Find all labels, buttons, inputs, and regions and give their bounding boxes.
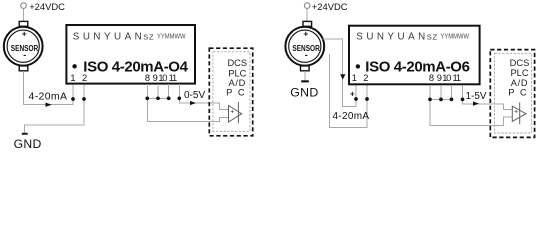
op-amp U2 triangle (left): [229, 106, 242, 123]
svg-text:+: +: [22, 28, 27, 38]
isolator module U3 box: [349, 26, 480, 85]
node dot pin10 (left): [167, 96, 171, 100]
node dot pin2 (left): [82, 97, 86, 101]
DCS inner card (left): [213, 52, 250, 132]
node dot pin1 (right): [354, 97, 358, 101]
svg-text:10: 10: [442, 73, 451, 83]
svg-text:-: -: [23, 50, 26, 60]
svg-text:SUNYUAN: SUNYUAN: [356, 31, 428, 42]
node dot pin10 (right): [450, 98, 454, 102]
svg-text:8: 8: [429, 73, 434, 83]
wire pin2 return loop (right): [330, 54, 367, 128]
wire sensor to ground (right): [304, 71, 306, 81]
svg-text:11: 11: [169, 73, 178, 83]
module bullet (right): [356, 64, 360, 68]
node dot pin2 (right): [365, 97, 369, 101]
wire pin8 dropline to DCS (right): [430, 85, 512, 125]
wire pin9 dropline (left): [157, 84, 159, 98]
label P C (right): [508, 87, 527, 97]
svg-text:4-20mA: 4-20mA: [29, 90, 68, 102]
wire terminal to sensor (left): [23, 8, 25, 21]
svg-text:2: 2: [363, 73, 368, 83]
terminal +24VDC (left): [21, 3, 27, 9]
svg-text:11: 11: [453, 73, 462, 83]
wire pin2 to GND (left): [25, 84, 84, 133]
node dot pin1 (left): [71, 97, 75, 101]
svg-text:+: +: [350, 89, 355, 98]
label P C (left): [226, 88, 245, 98]
node dot pin9 (left): [156, 96, 160, 100]
svg-text:+: +: [230, 109, 234, 116]
svg-text:9: 9: [153, 73, 158, 83]
isolator module U1 box: [66, 25, 195, 84]
svg-text:C: C: [238, 88, 245, 98]
wire pin9 dropline (right): [440, 85, 442, 100]
svg-text:4-20mA: 4-20mA: [333, 111, 370, 122]
svg-text:PLC: PLC: [510, 68, 528, 78]
wire pin11 to DCS (left): [179, 84, 209, 103]
svg-text:2: 2: [82, 73, 87, 83]
sensor S1 bottom tab: [19, 66, 28, 71]
sensor S1 top tab: [19, 21, 28, 26]
svg-text:10: 10: [158, 73, 167, 83]
svg-text:GND: GND: [14, 137, 42, 150]
wire pin10 dropline (left): [168, 84, 170, 98]
svg-text:SUNYUAN: SUNYUAN: [73, 31, 145, 42]
signal arrow 0-5V (left): [190, 101, 196, 105]
node dot pin11 (left): [177, 96, 181, 100]
node dot pin8 (right): [428, 98, 432, 102]
svg-text:+24VDC: +24VDC: [29, 1, 65, 12]
sensor S2 top tab: [303, 21, 312, 26]
wire sensor output to pin1 (left): [24, 71, 74, 105]
module bullet (left): [72, 64, 76, 68]
svg-text:1-5V: 1-5V: [466, 91, 487, 102]
sensor S1 body: [4, 27, 43, 66]
signal arrow 1-5V (right): [473, 102, 479, 106]
op-amp U4 bar (right): [519, 102, 521, 124]
op-amp U4 triangle (right): [512, 106, 526, 121]
ground bar (left): [22, 133, 28, 135]
wire pin10 dropline (right): [451, 85, 453, 100]
svg-text:C: C: [520, 87, 527, 97]
svg-text:1: 1: [352, 73, 357, 83]
DCS dashed box (right): [490, 50, 534, 138]
DCS dashed box (left): [209, 48, 252, 136]
svg-text:+24VDC: +24VDC: [312, 1, 348, 12]
svg-text:-: -: [305, 50, 308, 60]
svg-text:9: 9: [437, 73, 442, 83]
wire bus pins 8-10 (left): [147, 97, 168, 99]
DCS inner card (right): [495, 53, 532, 133]
svg-text:P: P: [508, 87, 514, 97]
sensor S2 bottom tab: [301, 66, 310, 71]
wire pin8 dropline to DCS (left): [147, 84, 228, 121]
svg-text:YYMMWW: YYMMWW: [441, 31, 470, 40]
svg-text:8: 8: [145, 73, 150, 83]
svg-text:SZ: SZ: [427, 32, 438, 41]
svg-text:DCS: DCS: [227, 58, 247, 68]
svg-text:P: P: [226, 88, 232, 98]
svg-text:PLC: PLC: [228, 68, 246, 78]
svg-text:SZ: SZ: [143, 32, 154, 41]
terminal +24VDC (right): [304, 3, 310, 9]
svg-text:+: +: [514, 109, 518, 116]
sensor S2 body: [285, 27, 324, 66]
wire terminal to sensor (right): [306, 9, 308, 22]
svg-text:YYMMWW: YYMMWW: [157, 31, 186, 40]
ground bar (right): [301, 80, 309, 82]
node dot pin9 (right): [439, 98, 443, 102]
wire pin11 to DCS (right): [463, 85, 513, 110]
node dot pin8 (left): [145, 96, 149, 100]
svg-text:1: 1: [70, 73, 75, 83]
wire into op-amp top (left): [209, 103, 228, 109]
node dot pin11 (right): [461, 98, 465, 102]
svg-text:+: +: [303, 28, 308, 38]
wire bus pins 8-10 (right): [430, 98, 452, 100]
svg-text:GND: GND: [290, 85, 318, 99]
svg-text:DCS: DCS: [510, 58, 530, 68]
current direction arrow (left): [46, 103, 52, 107]
current direction arrow down (right): [340, 74, 345, 79]
wire sensor signal to pin1 (right): [323, 39, 357, 107]
svg-text:0-5V: 0-5V: [184, 90, 205, 101]
op-amp U2 bar (left): [237, 102, 239, 123]
